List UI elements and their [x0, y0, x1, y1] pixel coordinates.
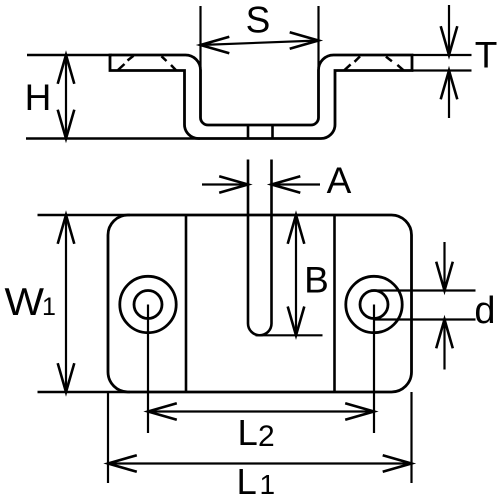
dimension S: [199, 6, 201, 68]
slot edges in section: [247, 125, 250, 139]
dimension T: [412, 54, 472, 56]
svg-text:S: S: [246, 0, 271, 41]
dimension H: [27, 54, 112, 56]
dimension B: [256, 334, 323, 336]
dimension d: [371, 289, 476, 291]
plan view: base plate: [108, 215, 412, 392]
right hole: [346, 276, 402, 332]
hatch marks right flange: [344, 64, 350, 70]
hole centre lines: [147, 305, 149, 434]
svg-text:H: H: [25, 77, 52, 118]
section view: hat channel profile: [110, 55, 412, 139]
bend lines: [185, 215, 188, 392]
dimension W1: [38, 214, 131, 216]
svg-text:T: T: [475, 35, 498, 76]
svg-text:A: A: [327, 160, 352, 201]
svg-text:W: W: [5, 281, 45, 324]
svg-text:1: 1: [260, 469, 276, 500]
dimension L1: [108, 462, 412, 464]
slot: [248, 160, 272, 336]
svg-text:2: 2: [258, 420, 275, 453]
dimension L2: [148, 410, 374, 412]
hatch marks left flange: [118, 64, 125, 70]
svg-text:L: L: [238, 412, 258, 453]
svg-text:1: 1: [42, 293, 56, 321]
dimension A: [202, 183, 248, 185]
svg-text:L: L: [237, 461, 257, 500]
left hole: [120, 276, 176, 332]
svg-text:B: B: [304, 260, 329, 301]
svg-text:d: d: [474, 290, 495, 332]
plate edge extensions: [107, 392, 109, 483]
